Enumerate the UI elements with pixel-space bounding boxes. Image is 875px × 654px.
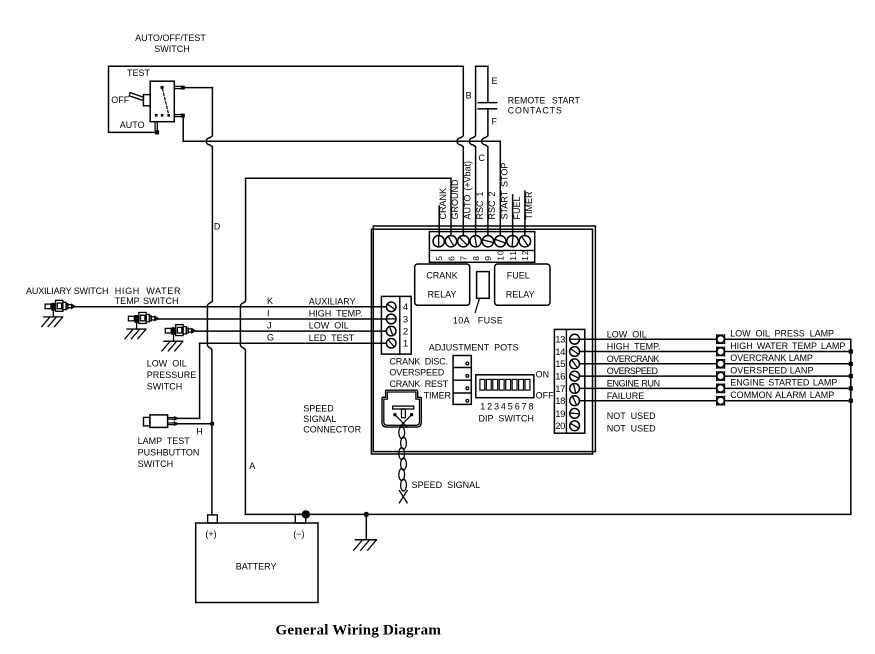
- svg-text:NOT USED: NOT USED: [607, 411, 656, 421]
- svg-text:CRANK: CRANK: [426, 271, 458, 281]
- svg-text:F: F: [492, 117, 498, 127]
- svg-text:NOT USED: NOT USED: [607, 424, 656, 434]
- svg-text:12345678: 12345678: [480, 401, 535, 411]
- svg-text:J: J: [267, 321, 272, 331]
- svg-text:HIGH TEMP.: HIGH TEMP.: [607, 342, 661, 352]
- svg-text:LOW OIL PRESS LAMP: LOW OIL PRESS LAMP: [730, 329, 834, 339]
- svg-text:D: D: [214, 222, 221, 232]
- svg-text:CONTACTS: CONTACTS: [508, 106, 563, 116]
- svg-text:START STOP: START STOP: [499, 163, 509, 220]
- svg-text:SWITCH: SWITCH: [154, 44, 190, 54]
- svg-text:OFF: OFF: [111, 95, 129, 105]
- svg-text:20: 20: [555, 421, 565, 432]
- svg-text:SIGNAL: SIGNAL: [303, 414, 336, 424]
- svg-text:TEMP SWITCH: TEMP SWITCH: [115, 296, 179, 306]
- svg-text:SWITCH: SWITCH: [138, 459, 174, 469]
- svg-text:(+): (+): [205, 529, 216, 539]
- svg-text:AUTO (+Vbat): AUTO (+Vbat): [463, 161, 473, 220]
- svg-text:LAMP TEST: LAMP TEST: [138, 436, 191, 446]
- svg-text:E: E: [492, 76, 498, 86]
- svg-text:SPEED SIGNAL: SPEED SIGNAL: [412, 480, 481, 490]
- svg-text:11: 11: [508, 250, 518, 261]
- svg-text:13: 13: [555, 335, 565, 346]
- svg-text:ON: ON: [536, 370, 550, 380]
- svg-text:PRESSURE: PRESSURE: [147, 370, 197, 380]
- svg-text:CRANK: CRANK: [438, 188, 448, 220]
- svg-text:General Wiring Diagram: General Wiring Diagram: [276, 623, 442, 639]
- svg-text:OFF: OFF: [536, 391, 554, 401]
- svg-text:RSC 1: RSC 1: [475, 191, 485, 219]
- svg-text:RELAY: RELAY: [428, 290, 457, 300]
- svg-text:B: B: [466, 91, 472, 101]
- svg-text:HIGH WATER TEMP LAMP: HIGH WATER TEMP LAMP: [730, 341, 845, 351]
- svg-text:DIP SWITCH: DIP SWITCH: [479, 414, 534, 424]
- svg-text:17: 17: [555, 384, 565, 395]
- svg-text:7: 7: [459, 255, 469, 261]
- svg-text:SPEED: SPEED: [303, 403, 334, 413]
- svg-text:TIMER: TIMER: [524, 191, 534, 219]
- svg-text:5: 5: [434, 255, 444, 261]
- svg-text:RELAY: RELAY: [506, 290, 535, 300]
- svg-text:LED TEST: LED TEST: [309, 333, 355, 343]
- svg-text:AUXILIARY: AUXILIARY: [309, 296, 356, 306]
- svg-text:OVERCRANK: OVERCRANK: [607, 354, 660, 364]
- svg-text:CRANK REST: CRANK REST: [389, 379, 448, 389]
- svg-text:LOW OIL: LOW OIL: [607, 329, 647, 339]
- svg-text:OVERSPEED: OVERSPEED: [389, 368, 444, 378]
- svg-text:TEST: TEST: [127, 68, 151, 78]
- svg-text:LOW OIL: LOW OIL: [309, 321, 349, 331]
- svg-text:AUTO: AUTO: [120, 120, 145, 130]
- svg-text:PUSHBUTTON: PUSHBUTTON: [138, 447, 200, 457]
- svg-text:BATTERY: BATTERY: [236, 562, 277, 572]
- svg-text:FUEL: FUEL: [507, 271, 530, 281]
- svg-text:10: 10: [496, 249, 506, 260]
- svg-text:FAILURE: FAILURE: [607, 391, 645, 401]
- svg-text:18: 18: [555, 396, 565, 407]
- svg-text:(−): (−): [293, 529, 304, 539]
- svg-text:COMMON ALARM LAMP: COMMON ALARM LAMP: [730, 390, 834, 400]
- svg-text:ADJUSTMENT POTS: ADJUSTMENT POTS: [429, 343, 519, 353]
- svg-text:ENGINE RUN: ENGINE RUN: [607, 379, 660, 389]
- svg-text:RSC 2: RSC 2: [487, 191, 497, 219]
- svg-text:ENGINE STARTED LAMP: ENGINE STARTED LAMP: [730, 378, 837, 388]
- svg-text:HIGH WATER: HIGH WATER: [115, 286, 182, 296]
- svg-text:8: 8: [471, 255, 481, 261]
- svg-text:9: 9: [483, 255, 493, 261]
- svg-text:CRANK DISC.: CRANK DISC.: [389, 356, 448, 366]
- svg-text:14: 14: [555, 347, 565, 358]
- svg-text:AUTO/OFF/TEST: AUTO/OFF/TEST: [135, 33, 206, 43]
- svg-text:6: 6: [446, 255, 456, 261]
- svg-text:16: 16: [555, 372, 565, 383]
- svg-text:TIMER: TIMER: [424, 391, 452, 401]
- svg-text:1: 1: [403, 339, 408, 350]
- svg-text:10A FUSE: 10A FUSE: [453, 316, 503, 326]
- svg-text:19: 19: [555, 409, 565, 420]
- svg-text:REMOTE START: REMOTE START: [508, 96, 581, 106]
- svg-text:OVERSPEED LANP: OVERSPEED LANP: [730, 365, 813, 375]
- svg-text:A: A: [249, 461, 255, 471]
- svg-text:4: 4: [403, 302, 408, 313]
- svg-text:GROUND: GROUND: [450, 179, 460, 219]
- svg-text:LOW OIL: LOW OIL: [147, 358, 187, 368]
- svg-text:2: 2: [403, 327, 408, 338]
- svg-text:H: H: [196, 426, 203, 436]
- svg-text:K: K: [267, 296, 273, 306]
- svg-text:SWITCH: SWITCH: [147, 381, 183, 391]
- svg-text:AUXILIARY SWITCH: AUXILIARY SWITCH: [26, 286, 108, 296]
- svg-text:CONNECTOR: CONNECTOR: [303, 424, 361, 434]
- svg-text:G: G: [267, 333, 274, 343]
- svg-text:OVERSPEED: OVERSPEED: [607, 366, 659, 376]
- svg-text:HIGH TEMP.: HIGH TEMP.: [309, 309, 363, 319]
- svg-text:C: C: [478, 153, 485, 163]
- svg-text:15: 15: [555, 359, 565, 370]
- svg-text:I: I: [267, 308, 270, 318]
- svg-text:FUEL: FUEL: [512, 196, 522, 219]
- svg-text:3: 3: [403, 314, 408, 325]
- svg-text:OVERCRANK LAMP: OVERCRANK LAMP: [730, 353, 813, 363]
- svg-text:12: 12: [520, 249, 530, 260]
